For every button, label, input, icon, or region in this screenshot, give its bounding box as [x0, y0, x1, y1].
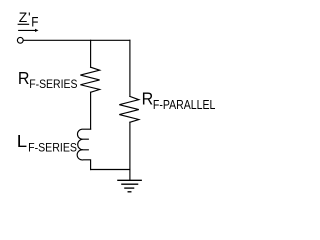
- svg-text:F: F: [31, 14, 38, 29]
- svg-text:F-SERIES: F-SERIES: [29, 77, 77, 91]
- svg-text:L: L: [17, 131, 27, 151]
- arrowhead: [35, 29, 39, 32]
- svg-text:R: R: [142, 89, 154, 109]
- terminal input port: [17, 37, 23, 43]
- svg-text:Z: Z: [19, 10, 27, 25]
- resistor RF-PARALLEL: [119, 96, 139, 122]
- wire left branch upper: [90, 40, 92, 67]
- wire left branch middle: [90, 92, 92, 129]
- wire to ground: [129, 122, 131, 180]
- inductor LF-SERIES: [77, 129, 90, 169]
- wire right branch upper: [129, 40, 131, 96]
- svg-text:': ': [28, 10, 31, 25]
- svg-text:F-PARALLEL: F-PARALLEL: [153, 98, 216, 112]
- underline of Z': [18, 23, 28, 25]
- resistor RF-SERIES: [80, 67, 99, 92]
- wire bottom rail: [91, 169, 130, 171]
- svg-text:R: R: [18, 68, 30, 88]
- wire top rail: [24, 39, 130, 41]
- ground: [118, 180, 141, 192]
- arrow impedance direction: [19, 29, 36, 31]
- svg-text:F-SERIES: F-SERIES: [28, 141, 77, 155]
